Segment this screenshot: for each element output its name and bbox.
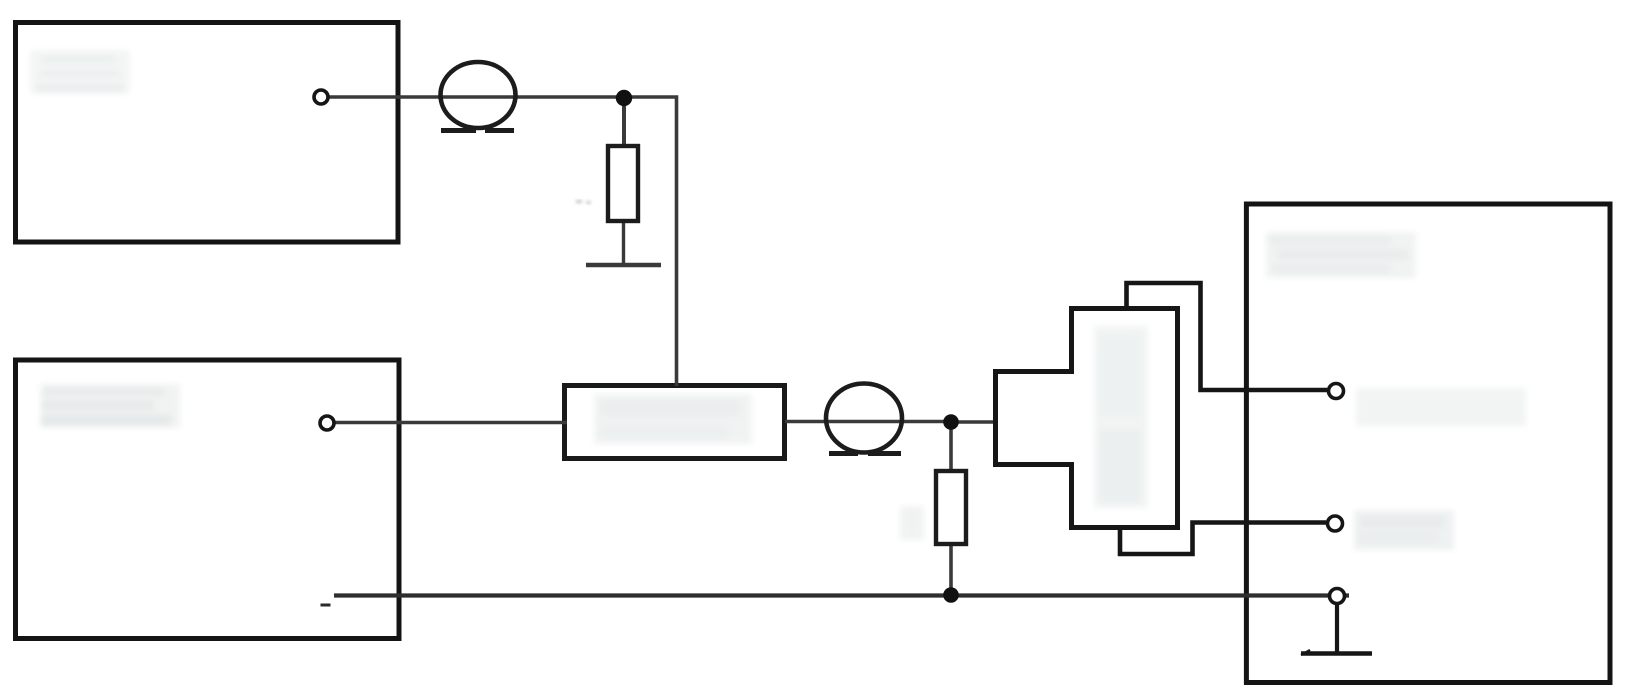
clamp L2 (absorbing clamp on middle run) — [826, 384, 902, 454]
terminal on box AE2 — [320, 416, 334, 430]
faint erased label in box 2 — [40, 384, 180, 428]
faint erased label in box 1 — [30, 50, 130, 94]
wire: EUT terminal 3 down to chassis ground — [1335, 603, 1339, 653]
wire: middle block through clamp L2 to junction node — [785, 420, 951, 424]
terminal 3 on EUT (ground) — [1330, 589, 1345, 604]
resistor R1 — [608, 146, 638, 221]
wire: resistor R2 down to bottom rail — [949, 543, 953, 595]
junction node A (top) — [616, 90, 632, 106]
wire: junction to resistor R1 — [622, 98, 626, 148]
wire: AE2 terminal to middle block — [335, 421, 567, 425]
faint erased label beside resistor R1 — [576, 200, 591, 204]
faint erased label in box 3 top — [1266, 232, 1416, 278]
connector block (plug shaped device) — [996, 309, 1178, 528]
wire: connector bottom lead to EUT terminal 2 — [1120, 523, 1326, 555]
terminal 1 on EUT — [1329, 384, 1344, 399]
ground symbol below R1 — [586, 263, 661, 268]
box AE2 (bottom-left apparatus) — [16, 360, 400, 639]
wire: junction node to connector arm — [951, 420, 996, 424]
faint erased label in middle box — [594, 394, 752, 444]
clamp L1 (absorbing clamp on top run) — [441, 62, 516, 131]
chassis ground bar inside EUT — [1301, 651, 1372, 655]
middle block (coupling network) — [565, 386, 785, 459]
faint erased label beside terminal 1 of box 3 — [1356, 388, 1526, 426]
wire: connector top lead to EUT terminal 1 — [1127, 283, 1328, 390]
wire: junction node down to resistor R2 — [949, 422, 953, 472]
junction node B (middle) — [943, 414, 959, 430]
box EUT (right apparatus) — [1246, 204, 1610, 683]
terminal 2 on EUT — [1328, 516, 1343, 531]
terminal on box AE1 — [314, 90, 328, 104]
wire: resistor R1 to ground — [622, 220, 625, 264]
minus polarity mark at AE2 bottom output — [321, 604, 331, 607]
ground bar left serif — [1301, 650, 1310, 655]
resistor R2 — [936, 471, 966, 544]
faint erased label beside terminal 2 of box 3 — [1354, 510, 1454, 550]
wire: top run from AE1 terminal through clamp L1 to vertical drop — [328, 97, 677, 386]
faint erased label beside resistor R2 — [900, 506, 924, 540]
wire: bottom ground rail from AE2 to EUT terminal 3 — [334, 593, 1349, 597]
faint erased label in connector block — [1094, 326, 1148, 508]
box AE1 (top-left apparatus) — [16, 23, 399, 243]
junction node C (bottom rail) — [943, 587, 959, 603]
